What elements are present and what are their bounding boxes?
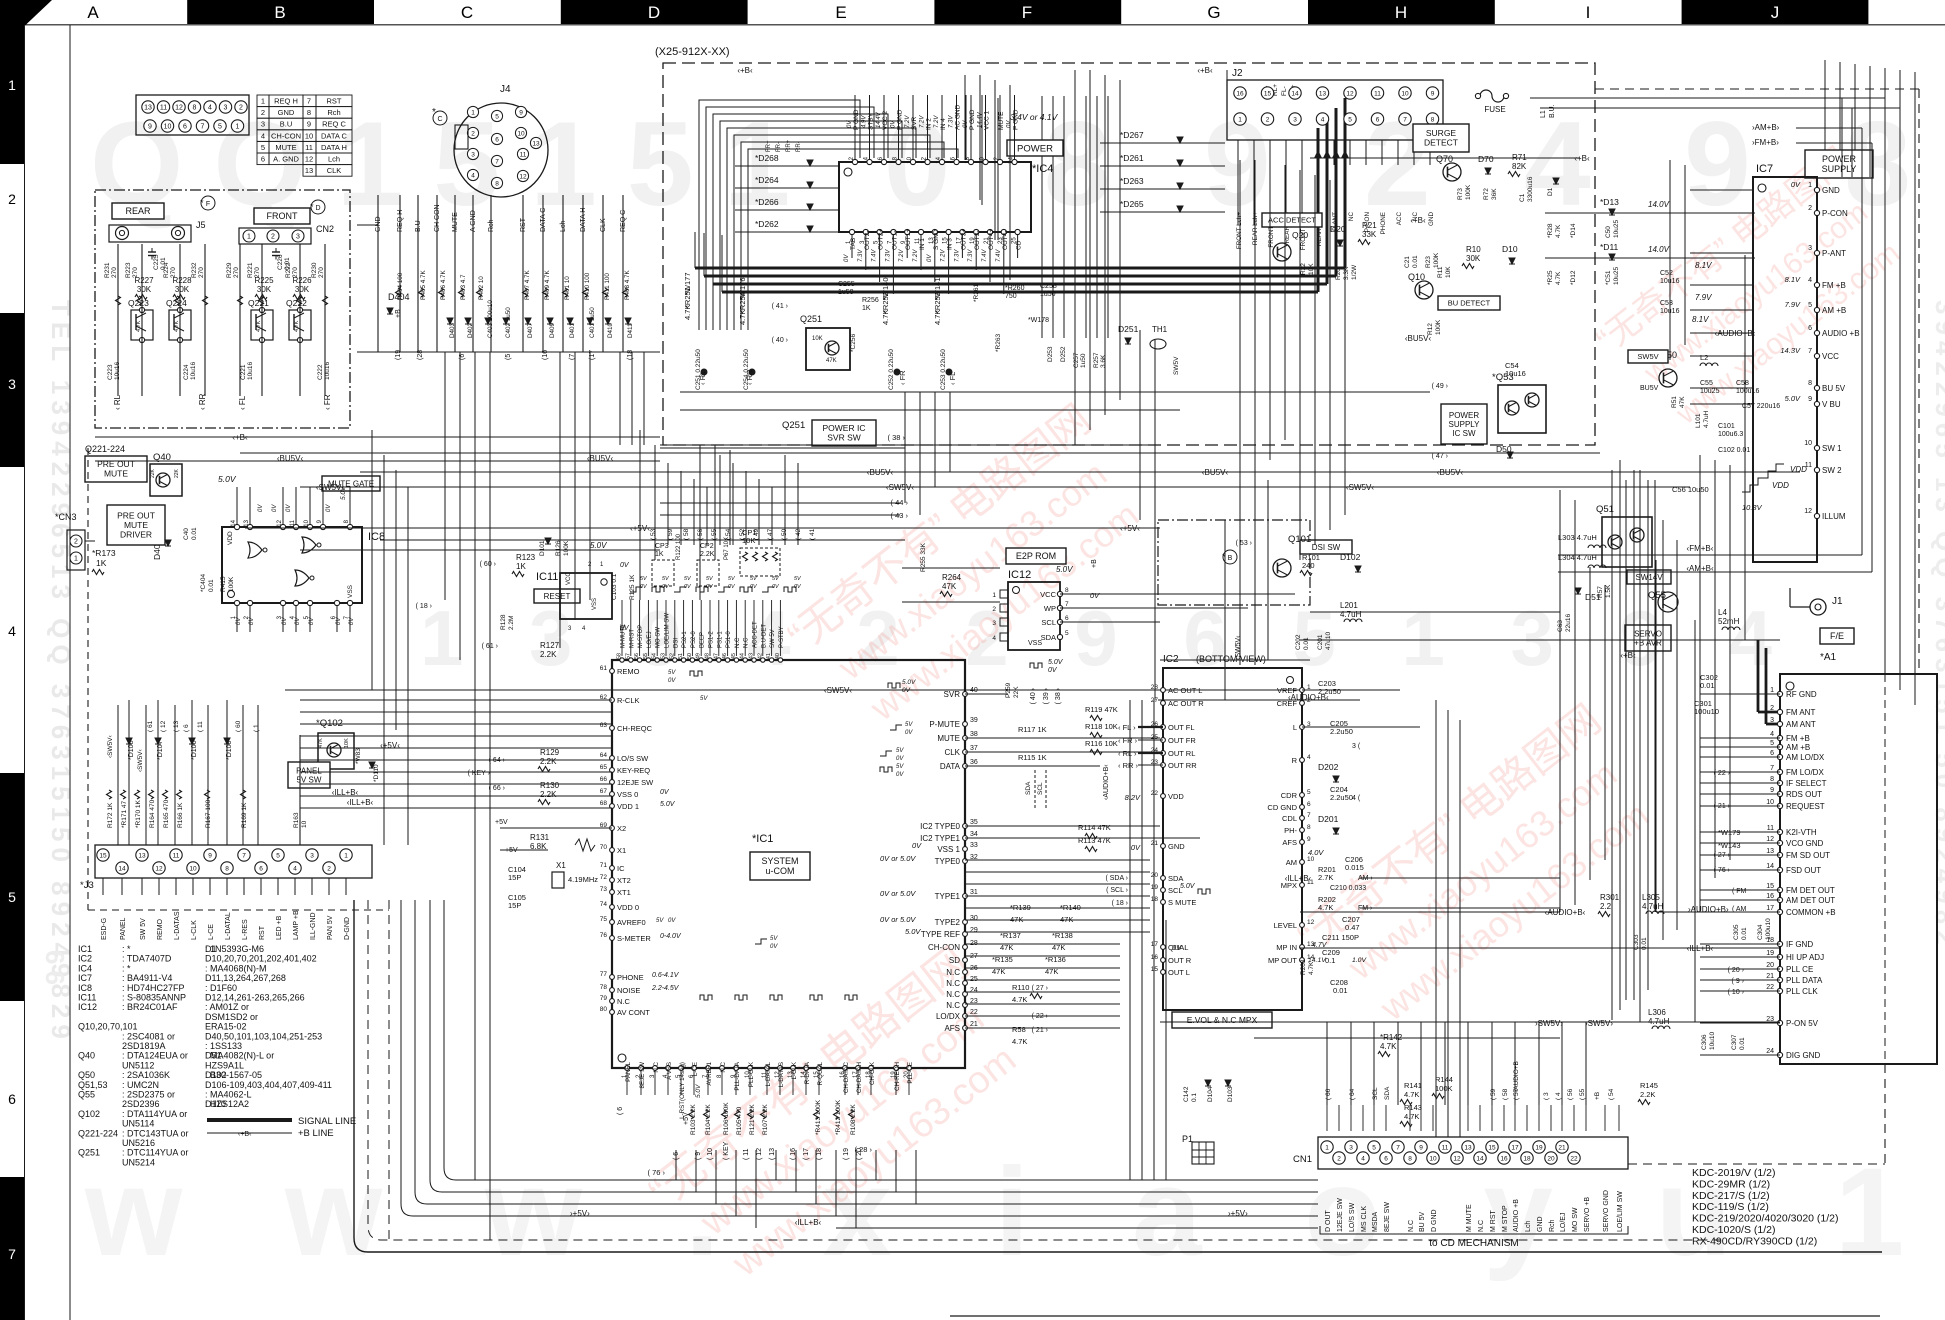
svg-text:5.0V: 5.0V (218, 474, 237, 484)
svg-text:R125 1K: R125 1K (629, 574, 636, 600)
svg-text:FR-: FR- (776, 142, 782, 152)
svg-text:PH-: PH- (1284, 826, 1297, 835)
svg-text:‹ RR: ‹ RR (745, 369, 754, 385)
svg-text:*D268: *D268 (755, 153, 779, 163)
svg-text:F: F (1022, 3, 1032, 22)
svg-text:Lch: Lch (560, 221, 567, 232)
svg-text:: MA4082(N)-L or: : MA4082(N)-L or (205, 1051, 274, 1061)
svg-text:‹ RR: ‹ RR (198, 393, 207, 410)
svg-text:OUT4-: OUT4- (1002, 231, 1009, 251)
svg-text:5: 5 (1808, 302, 1812, 309)
svg-text:E.VOL & N.C MPX: E.VOL & N.C MPX (1187, 1015, 1258, 1025)
svg-text:IN 2: IN 2 (926, 118, 933, 130)
svg-text:8.1V: 8.1V (1695, 261, 1712, 270)
svg-text:N.C: N.C (720, 1061, 727, 1072)
svg-text:15P: 15P (508, 873, 521, 882)
svg-text:*D11: *D11 (1600, 242, 1619, 252)
svg-text:M STOP: M STOP (1502, 1205, 1509, 1232)
svg-text:X1: X1 (617, 846, 626, 855)
svg-text:IC1: IC1 (78, 944, 92, 954)
svg-text:KEY-REQ: KEY-REQ (617, 766, 650, 775)
svg-text:VCC 1: VCC 1 (984, 110, 991, 130)
svg-text:*R261: *R261 (973, 284, 980, 302)
svg-text:C253 0.22u50: C253 0.22u50 (940, 349, 947, 390)
svg-text:PS1-1: PS1-1 (717, 631, 723, 648)
svg-text:3300u16: 3300u16 (1527, 176, 1534, 202)
svg-text:R229: R229 (226, 262, 233, 278)
svg-text:6: 6 (1376, 116, 1380, 123)
svg-text:77: 77 (600, 971, 608, 978)
svg-text:‹ RL: ‹ RL (113, 394, 122, 410)
svg-text:4.7K: 4.7K (1380, 1042, 1397, 1051)
svg-text:VSS 0: VSS 0 (617, 790, 638, 799)
svg-text:10: 10 (1804, 440, 1812, 447)
svg-text:P-STBY: P-STBY (779, 626, 785, 648)
svg-text:C305: C305 (1733, 924, 1740, 940)
svg-text:( 27 ›: ( 27 › (1032, 985, 1049, 992)
svg-text:5.0V: 5.0V (902, 679, 916, 686)
svg-text:OUT3-: OUT3- (974, 231, 981, 251)
svg-text:ILL-GND: ILL-GND (310, 912, 317, 940)
svg-text:: BA4911-V4: : BA4911-V4 (122, 973, 172, 983)
svg-text:M MUTE: M MUTE (1466, 1204, 1473, 1232)
svg-text:4.7K: 4.7K (881, 310, 890, 325)
svg-text:‹+B‹: ‹+B‹ (1197, 66, 1213, 75)
svg-text:1: 1 (1808, 182, 1812, 189)
svg-text:AUDIO +B: AUDIO +B (1822, 329, 1860, 338)
svg-text:68: 68 (600, 800, 608, 807)
svg-text:5.0V: 5.0V (1056, 565, 1073, 574)
svg-text:LO/S SW: LO/S SW (1349, 1202, 1356, 1232)
svg-text:1: 1 (1238, 116, 1242, 123)
svg-text:Rch: Rch (1549, 1219, 1556, 1232)
svg-text:22u16: 22u16 (1565, 614, 1572, 632)
svg-text:1: 1 (992, 592, 996, 599)
svg-text:47K: 47K (318, 738, 324, 748)
svg-text:( 55: ( 55 (1579, 1088, 1586, 1100)
svg-text:22: 22 (970, 1009, 978, 1016)
svg-text:( 58: ( 58 (683, 528, 690, 540)
svg-text:2.2K: 2.2K (540, 757, 557, 766)
svg-text:ACC: ACC (1396, 212, 1403, 226)
svg-text:BU5V: BU5V (1640, 385, 1659, 392)
svg-text:MUTE: MUTE (104, 469, 128, 479)
svg-text:LO/EJ: LO/EJ (647, 631, 653, 648)
svg-text:A VSS: A VSS (666, 1062, 673, 1080)
svg-text:D: D (648, 3, 660, 22)
svg-text:80: 80 (600, 1006, 608, 1013)
svg-text:PS1-2: PS1-2 (709, 631, 715, 648)
svg-text:DATA C: DATA C (321, 131, 348, 140)
svg-text:J2: J2 (1232, 68, 1243, 79)
svg-text:LOE/LIM SW: LOE/LIM SW (1617, 1191, 1624, 1232)
svg-text:( KEY: ( KEY (723, 1141, 730, 1160)
svg-text:*IC1: *IC1 (752, 833, 773, 845)
svg-text:2: 2 (327, 865, 331, 872)
svg-text:OUT RL: OUT RL (1168, 749, 1195, 758)
svg-text:2.2u50: 2.2u50 (1318, 687, 1341, 696)
svg-text:( 6: ( 6 (183, 724, 190, 732)
svg-text:2SD2396: 2SD2396 (122, 1099, 160, 1109)
svg-text:( 6: ( 6 (617, 1107, 624, 1115)
svg-text:AFS: AFS (1282, 838, 1297, 847)
svg-text:15P: 15P (508, 901, 521, 910)
svg-text:D106-109,403,404,407,409-411: D106-109,403,404,407,409-411 (205, 1080, 332, 1090)
svg-text:KDC-119/S (1/2): KDC-119/S (1/2) (1692, 1201, 1769, 1213)
svg-text:D40,50,101,103,104,251-253: D40,50,101,103,104,251-253 (205, 1031, 322, 1041)
svg-text:C304: C304 (1757, 924, 1764, 940)
svg-text:PHONE: PHONE (1380, 212, 1387, 234)
svg-text:( 47 ›: ( 47 › (1432, 453, 1449, 460)
svg-text:*C404: *C404 (200, 574, 207, 592)
svg-text:R131: R131 (530, 833, 550, 842)
svg-text:*D261: *D261 (1120, 153, 1144, 163)
svg-text:J5: J5 (196, 220, 206, 230)
svg-text:R232: R232 (191, 262, 198, 278)
svg-text:SW 2: SW 2 (1822, 466, 1842, 475)
svg-text:C21: C21 (1404, 256, 1411, 268)
svg-text:: MA4068(N)-M: : MA4068(N)-M (205, 963, 267, 973)
svg-text:R230: R230 (311, 262, 318, 278)
svg-text:SYSTEM: SYSTEM (761, 856, 798, 866)
svg-text:21: 21 (1151, 840, 1159, 847)
svg-text:47K: 47K (942, 582, 957, 591)
svg-text:4.7K: 4.7K (1012, 1037, 1027, 1046)
svg-text:‹+B‹: ‹+B‹ (1410, 216, 1426, 225)
svg-text:B.U-DET: B.U-DET (761, 624, 767, 648)
svg-text:2: 2 (471, 130, 475, 137)
svg-text:R130: R130 (540, 781, 560, 790)
svg-text:R114 47K: R114 47K (1078, 823, 1111, 832)
svg-text:›+5V›: ›+5V› (1228, 1209, 1248, 1218)
svg-text:*D262: *D262 (755, 219, 779, 229)
svg-text:0.01: 0.01 (1333, 986, 1348, 995)
svg-text:5V: 5V (896, 748, 904, 754)
svg-text:BU 5V: BU 5V (1419, 1211, 1426, 1232)
svg-text:10K: 10K (1445, 266, 1452, 278)
svg-text:0V: 0V (309, 617, 315, 625)
svg-text:Q251: Q251 (800, 314, 822, 324)
svg-text:7.2V: 7.2V (941, 249, 947, 262)
svg-text:Q251: Q251 (78, 1148, 100, 1158)
svg-text:*R263: *R263 (995, 334, 1002, 352)
svg-text:VSS 1: VSS 1 (937, 845, 960, 854)
svg-text:C: C (437, 116, 442, 123)
svg-text:R257: R257 (1093, 352, 1100, 368)
svg-text:R164 470: R164 470 (149, 799, 156, 828)
svg-text:( 1: ( 1 (253, 724, 260, 732)
svg-text:FRONT: FRONT (267, 211, 298, 221)
svg-text:0V or 5.0V: 0V or 5.0V (880, 889, 916, 898)
svg-text:: TDA7407D: : TDA7407D (122, 954, 172, 964)
svg-text:+B LINE: +B LINE (298, 1128, 334, 1139)
svg-text:D10,20,70,201,202,401,402: D10,20,70,201,202,401,402 (205, 954, 317, 964)
svg-text:4: 4 (261, 131, 265, 140)
svg-text:CH-DATAC: CH-DATAC (843, 1061, 850, 1093)
svg-text:( KEY ›: ( KEY › (468, 770, 491, 777)
svg-text:RST: RST (520, 217, 527, 232)
svg-text:2: 2 (271, 234, 275, 241)
svg-text:DETECT: DETECT (1424, 138, 1458, 148)
svg-text:REQ C: REQ C (620, 210, 627, 232)
svg-text:17: 17 (1511, 1144, 1519, 1151)
svg-text:: UMC2N: : UMC2N (122, 1080, 159, 1090)
svg-text:D102: D102 (1340, 552, 1361, 562)
svg-text:KDC-29MR (1/2): KDC-29MR (1/2) (1692, 1178, 1770, 1190)
svg-text:RX-490CD/RY390CD (1/2): RX-490CD/RY390CD (1/2) (1692, 1235, 1817, 1247)
svg-text:Q51,53: Q51,53 (78, 1080, 108, 1090)
svg-text:*J3: *J3 (80, 880, 94, 891)
svg-text:19: 19 (1535, 1144, 1543, 1151)
svg-text:15: 15 (99, 852, 107, 859)
svg-text:35: 35 (970, 819, 978, 826)
svg-text:POWER: POWER (1449, 411, 1479, 420)
svg-text:ACC-DET: ACC-DET (753, 621, 759, 648)
svg-text:R127: R127 (540, 641, 560, 650)
svg-text:0-4.0V: 0-4.0V (660, 933, 682, 940)
svg-text:5: 5 (218, 124, 222, 131)
svg-text:‹AUDIO+B: ‹AUDIO+B (1513, 1061, 1520, 1092)
svg-text:Q221-224: Q221-224 (78, 1128, 118, 1138)
svg-text:4: 4 (992, 635, 996, 642)
svg-text:R107 2.2K: R107 2.2K (762, 1104, 769, 1135)
svg-text:0V: 0V (905, 730, 913, 736)
svg-text:D11,13,264,267,268: D11,13,264,267,268 (205, 973, 286, 983)
svg-text:D1: D1 (1547, 187, 1554, 196)
svg-text:40: 40 (970, 687, 978, 694)
svg-text:( 12: ( 12 (160, 720, 167, 732)
svg-text:P GND: P GND (969, 109, 976, 130)
svg-text:270: 270 (292, 267, 299, 278)
svg-text:7.3V: 7.3V (954, 249, 960, 262)
svg-text:10: 10 (305, 131, 313, 140)
svg-text:3: 3 (224, 105, 228, 112)
svg-text:SW5V: SW5V (1637, 352, 1658, 361)
svg-text:VCC: VCC (1822, 352, 1839, 361)
svg-text:C257: C257 (1073, 352, 1080, 368)
svg-text:PAN 5V: PAN 5V (327, 915, 334, 940)
svg-text:Q51: Q51 (1596, 504, 1614, 515)
svg-text:16: 16 (1500, 1155, 1508, 1162)
svg-text:VDD: VDD (1168, 792, 1184, 801)
svg-text:P GND: P GND (1013, 109, 1020, 130)
svg-text:7.2V: 7.2V (899, 249, 905, 262)
svg-text:Q221-224: Q221-224 (85, 444, 125, 454)
svg-text:R105 470: R105 470 (736, 1106, 743, 1135)
svg-text:2: 2 (1770, 705, 1774, 712)
svg-text:75: 75 (600, 916, 608, 923)
svg-text:5: 5 (1372, 1144, 1376, 1151)
svg-text:2: 2 (261, 108, 265, 117)
svg-text:OUT2+: OUT2+ (878, 229, 885, 250)
svg-text:*R260: *R260 (1005, 285, 1025, 292)
svg-text:8: 8 (307, 108, 311, 117)
svg-text:›FM+B›: ›FM+B› (1752, 138, 1779, 147)
svg-text:( 9 ›: ( 9 › (1732, 978, 1745, 985)
svg-text:*D264: *D264 (755, 175, 779, 185)
svg-text:FM +B: FM +B (1786, 734, 1810, 743)
svg-text:SUPPLY: SUPPLY (1822, 164, 1857, 174)
svg-text:( 4: ( 4 (1555, 1092, 1562, 1100)
svg-text:R11: R11 (1437, 266, 1444, 278)
svg-text:( 53 ›: ( 53 › (1236, 540, 1253, 547)
svg-text:4: 4 (1361, 1155, 1365, 1162)
svg-text:( 59: ( 59 (1490, 1088, 1497, 1100)
svg-text:R231: R231 (104, 262, 111, 278)
svg-text:12: 12 (305, 155, 313, 164)
svg-text:PANEL: PANEL (120, 917, 127, 940)
svg-text:OUT FR: OUT FR (1168, 736, 1196, 745)
svg-text:*R171 47: *R171 47 (121, 801, 128, 828)
svg-text:AVREF0: AVREF0 (617, 918, 646, 927)
svg-text:12EJE SW: 12EJE SW (1337, 1198, 1344, 1232)
svg-text:P GND: P GND (897, 109, 904, 130)
svg-text:270: 270 (318, 267, 325, 278)
svg-text:11: 11 (1767, 825, 1774, 832)
svg-text:30K: 30K (175, 285, 190, 294)
svg-text:8: 8 (1431, 116, 1435, 123)
svg-text:REMO: REMO (157, 918, 164, 940)
svg-text:13: 13 (144, 105, 152, 112)
svg-text:‹AUDIO+B‹: ‹AUDIO+B‹ (1715, 329, 1756, 338)
svg-text:: *: : * (122, 944, 131, 954)
svg-text:4.7uH: 4.7uH (1340, 610, 1362, 619)
svg-text:0V: 0V (912, 841, 922, 850)
svg-text:*R25: *R25 (1547, 270, 1554, 285)
svg-text:10K: 10K (1308, 263, 1315, 275)
svg-text:1u50: 1u50 (1080, 353, 1087, 368)
svg-text:7: 7 (242, 852, 246, 859)
svg-text:: 2SC4081 or: : 2SC4081 or (122, 1031, 175, 1041)
svg-text:LO/EJ: LO/EJ (1560, 1213, 1567, 1232)
svg-text:16: 16 (1151, 954, 1159, 961)
svg-text:D251: D251 (1118, 324, 1139, 334)
svg-text:0V: 0V (770, 944, 778, 950)
svg-text:R23: R23 (1425, 256, 1432, 268)
svg-text:3.3K: 3.3K (1343, 266, 1350, 280)
svg-text:( SDA ›: ( SDA › (1105, 875, 1128, 882)
svg-text:AM DET OUT: AM DET OUT (1786, 896, 1835, 905)
svg-text:1: 1 (1770, 687, 1774, 694)
svg-text:0V: 0V (1131, 843, 1141, 852)
svg-text:( 3: ( 3 (1543, 1092, 1550, 1100)
svg-text:2.2K: 2.2K (700, 551, 715, 558)
svg-text:PHONE: PHONE (617, 973, 644, 982)
svg-text:8: 8 (1408, 1155, 1412, 1162)
svg-text:IN 4: IN 4 (940, 118, 947, 130)
svg-text:FM ANT: FM ANT (1786, 708, 1815, 717)
svg-text:L1: L1 (1540, 110, 1547, 118)
svg-text:1/2W: 1/2W (1351, 264, 1358, 280)
svg-text:0.01: 0.01 (284, 257, 291, 270)
svg-text:15: 15 (1766, 883, 1774, 890)
svg-text:5: 5 (1770, 740, 1774, 747)
svg-text:AM +B: AM +B (1822, 306, 1846, 315)
svg-text:R110: R110 (1012, 983, 1029, 992)
svg-text:OUT2-: OUT2- (864, 231, 871, 251)
svg-text:5V: 5V (770, 936, 778, 942)
svg-text:5V: 5V (896, 764, 904, 770)
svg-text:2.2u50: 2.2u50 (1330, 727, 1353, 736)
svg-text:14: 14 (1766, 863, 1774, 870)
svg-text:7: 7 (1065, 601, 1069, 608)
svg-text:19: 19 (1766, 950, 1774, 957)
svg-text:7.2V: 7.2V (905, 115, 911, 128)
svg-text:CH-CON: CH-CON (928, 943, 960, 952)
svg-text:9: 9 (148, 124, 152, 131)
svg-text:10: 10 (1429, 1155, 1437, 1162)
svg-text:UN5114: UN5114 (122, 1119, 154, 1129)
svg-text:7.4V: 7.4V (996, 249, 1002, 262)
svg-text:5V: 5V (905, 722, 913, 728)
svg-text:270: 270 (170, 267, 177, 278)
svg-text:SVR: SVR (911, 116, 918, 130)
svg-text:R166 1K: R166 1K (177, 802, 184, 828)
svg-text:6: 6 (8, 1091, 16, 1107)
svg-text:C102 0.01: C102 0.01 (1718, 447, 1750, 454)
svg-text:10: 10 (189, 865, 197, 872)
svg-text:10u16: 10u16 (190, 362, 197, 380)
svg-text:2: 2 (1808, 205, 1812, 212)
svg-text:22K: 22K (150, 468, 156, 478)
svg-text:ILLUM: ILLUM (1822, 512, 1846, 521)
svg-text:R22: R22 (1300, 263, 1307, 275)
svg-text:‹+B‹: ‹+B‹ (232, 433, 248, 442)
svg-text:C56 10u50: C56 10u50 (1672, 485, 1709, 494)
svg-text:AC OUT R: AC OUT R (1168, 699, 1204, 708)
svg-text:OUT L: OUT L (1168, 968, 1190, 977)
svg-text:5.0V: 5.0V (1785, 394, 1801, 403)
svg-text:9: 9 (1431, 90, 1435, 97)
svg-text:VCO GND: VCO GND (1786, 839, 1824, 848)
svg-text:*W143: *W143 (1718, 841, 1741, 850)
svg-text:7: 7 (1396, 1144, 1400, 1151)
svg-text:34: 34 (970, 831, 978, 838)
svg-text:8EJE SW: 8EJE SW (639, 1062, 646, 1089)
svg-text:DSM1SD2 or: DSM1SD2 or (205, 1012, 258, 1022)
svg-text:*A1: *A1 (1820, 652, 1837, 663)
svg-text:1: 1 (471, 109, 475, 116)
svg-text:( 76 ›: ( 76 › (647, 1168, 665, 1177)
svg-text:( 19: ( 19 (843, 1148, 850, 1160)
svg-text:PS2-0: PS2-0 (691, 631, 697, 648)
svg-text:UN5216: UN5216 (122, 1138, 155, 1148)
svg-text:FM DET OUT: FM DET OUT (1786, 886, 1835, 895)
svg-text:13: 13 (1319, 90, 1327, 97)
svg-text:21: 21 (1766, 973, 1774, 980)
svg-text:15: 15 (1488, 1144, 1496, 1151)
svg-text:IC11: IC11 (536, 571, 558, 583)
svg-text:FSD OUT: FSD OUT (1786, 866, 1821, 875)
svg-text:(16: (16 (542, 350, 549, 360)
svg-text:270: 270 (111, 267, 118, 278)
svg-text:B: B (274, 3, 285, 22)
svg-text:( 40 ›: ( 40 › (772, 337, 789, 344)
svg-text:4: 4 (8, 623, 16, 639)
svg-text:‹+B‹: ‹+B‹ (737, 66, 753, 75)
svg-text:3: 3 (8, 376, 16, 392)
svg-text:L: L (1293, 723, 1297, 732)
svg-text:R116 10K: R116 10K (1085, 739, 1118, 748)
svg-text:P-ON 5V: P-ON 5V (1786, 1019, 1819, 1028)
svg-text:30K: 30K (257, 285, 272, 294)
svg-text:Rch: Rch (488, 219, 495, 232)
svg-text:12: 12 (175, 105, 183, 112)
svg-text:( 52: ( 52 (739, 528, 746, 540)
svg-text:›AM+B›: ›AM+B› (1752, 123, 1780, 132)
svg-text:IC12: IC12 (1008, 569, 1031, 581)
svg-text:VDD 1: VDD 1 (617, 802, 639, 811)
